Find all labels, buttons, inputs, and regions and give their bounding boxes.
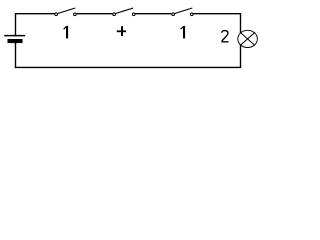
switch S3: [172, 8, 193, 16]
wire bottom: [15, 66, 241, 68]
wire left lower: bottom wire up to battery minus: [15, 43, 17, 69]
wire left upper: top wire down to battery plus: [15, 13, 17, 36]
battery B1 negative plate short thick: [8, 39, 23, 43]
wire between S2 and S3: [135, 13, 171, 15]
wire lamp bottom to bottom-right corner: [240, 44, 242, 67]
label + for S2: [117, 26, 126, 36]
label 2 for lamp: [221, 31, 228, 42]
wire top segment battery to S1: [16, 13, 55, 15]
lamp L1 cross: [240, 32, 255, 45]
label 1 for S1: [64, 26, 69, 39]
switch S1: [55, 8, 77, 16]
wire S3 to top-right corner, down to lamp: [193, 13, 240, 33]
wire between S1 and S2: [77, 13, 113, 15]
label 1 for S3: [181, 26, 186, 39]
lamp L1 circle: [238, 30, 258, 47]
switch S2: [113, 8, 135, 16]
battery B1 positive plate long thin: [4, 35, 25, 37]
